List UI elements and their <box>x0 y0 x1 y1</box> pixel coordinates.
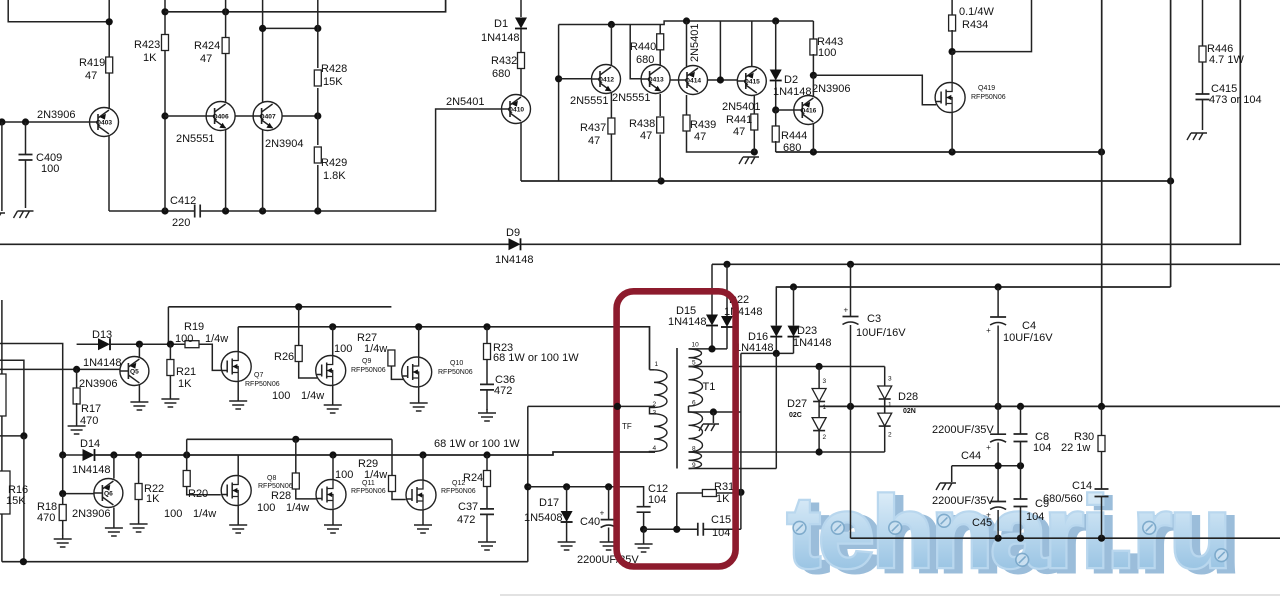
svg-text:RFP50N06: RFP50N06 <box>441 488 476 495</box>
capacitor C412 <box>109 210 195 212</box>
svg-text:47: 47 <box>694 131 706 143</box>
wire Q5 collector <box>138 344 140 357</box>
ground R18 <box>54 535 72 547</box>
diode D22 <box>726 264 728 316</box>
junction rail y406 nodes <box>995 403 1002 410</box>
junction D14 bus <box>483 451 490 458</box>
svg-text:R437: R437 <box>580 122 606 134</box>
svg-text:3: 3 <box>888 376 892 383</box>
T1 secondary winding mid <box>689 367 703 407</box>
svg-text:220: 220 <box>172 217 190 229</box>
svg-text:R24: R24 <box>463 472 483 484</box>
junction rail B <box>329 323 336 330</box>
wire gate rail A <box>168 306 391 308</box>
wire Q8 source <box>237 506 239 522</box>
svg-text:R17: R17 <box>81 403 101 415</box>
capacitor C3 <box>850 264 852 316</box>
mosfet Q8 <box>221 476 251 506</box>
svg-text:RFP50N06: RFP50N06 <box>245 381 280 388</box>
ground Q5 <box>130 398 148 410</box>
wire Q11 drain <box>332 455 334 480</box>
wire rail y287 <box>776 286 1171 288</box>
transistor Q410 <box>502 95 531 124</box>
wire left rail lower <box>23 436 25 562</box>
capacitor C45 <box>997 466 999 502</box>
wire emitter bus y152 <box>776 151 1102 153</box>
wire pin10 wire <box>689 348 728 350</box>
junction rail A <box>295 303 302 310</box>
svg-text:3: 3 <box>653 410 657 417</box>
wire output rail y406 <box>819 405 1280 407</box>
svg-text:10UF/16V: 10UF/16V <box>856 327 906 339</box>
svg-text:1/4w: 1/4w <box>286 502 309 514</box>
junction bus y152 <box>810 148 817 155</box>
svg-text:C44: C44 <box>961 450 981 462</box>
junction C412 bus <box>161 207 168 214</box>
wire Q412 collector rail <box>559 21 814 25</box>
junction C412 bus <box>222 207 229 214</box>
wire Q407 collector riser <box>262 0 264 103</box>
watermark tehnari.ru <box>787 477 1237 593</box>
diode D2 <box>775 21 777 70</box>
wire Q406 base <box>165 115 206 117</box>
junction rail y21 <box>772 17 779 24</box>
capacitor C37 <box>480 509 494 515</box>
svg-text:100: 100 <box>818 47 836 59</box>
faint bottom divider <box>500 594 1280 596</box>
svg-text:680/560: 680/560 <box>1043 493 1083 505</box>
ground R22 <box>130 520 148 532</box>
junction R419 top <box>106 18 113 25</box>
svg-text:10: 10 <box>692 342 700 349</box>
junction rail y406 nodes <box>1017 403 1024 410</box>
svg-text:1.8K: 1.8K <box>323 170 346 182</box>
svg-text:Q419: Q419 <box>978 85 995 92</box>
wire Q415 collector <box>751 21 753 67</box>
transistor Q412 <box>592 65 621 94</box>
wire Q412 base <box>559 78 592 80</box>
junction C412 bus <box>259 207 266 214</box>
svg-text:D17: D17 <box>539 497 559 509</box>
svg-text:2N5401: 2N5401 <box>689 23 701 62</box>
junction pin10 node <box>708 345 715 352</box>
svg-text:C3: C3 <box>867 313 881 325</box>
junction R434 node <box>949 48 956 55</box>
wire V+ top rail <box>165 0 446 12</box>
resistor R21 <box>169 344 171 360</box>
ground Q6 <box>105 524 123 536</box>
resistor R29 <box>391 439 393 476</box>
svg-text:R441: R441 <box>726 114 752 126</box>
wire pin5 wire <box>689 366 885 368</box>
diode D23 <box>793 287 795 326</box>
wire Q407 right link <box>282 115 318 117</box>
junction Q412 base node <box>555 75 562 82</box>
diode D15 <box>711 264 713 314</box>
svg-text:47: 47 <box>85 70 97 82</box>
svg-text:0.1/4W: 0.1/4W <box>959 6 994 18</box>
wire Q6 collector <box>113 455 115 479</box>
wire top-left stub <box>8 0 109 22</box>
resistor R441 <box>753 95 755 114</box>
svg-text:473 or 104: 473 or 104 <box>1209 94 1262 106</box>
svg-text:R20: R20 <box>188 488 208 500</box>
wire Q12 source <box>422 510 424 521</box>
svg-text:R440: R440 <box>630 41 656 53</box>
wire Q10 drain <box>418 327 420 357</box>
mosfet Q7 <box>221 352 251 382</box>
svg-text:D14: D14 <box>80 438 100 450</box>
svg-text:Q406: Q406 <box>213 114 229 121</box>
wire D17 bus <box>528 487 644 507</box>
resistor R443 <box>812 21 814 40</box>
junction D14 bus <box>135 451 142 458</box>
resistor R28 <box>295 439 297 473</box>
svg-text:1N4148: 1N4148 <box>735 342 774 354</box>
wire pin6 wire <box>689 406 741 412</box>
svg-text:2N3906: 2N3906 <box>79 378 118 390</box>
junction rail C <box>292 436 299 443</box>
resistor R27 <box>388 350 395 366</box>
svg-text:Q10: Q10 <box>450 360 463 367</box>
svg-text:1: 1 <box>655 361 659 368</box>
svg-text:472: 472 <box>457 514 475 526</box>
junction bus y152 <box>949 148 956 155</box>
svg-text:2: 2 <box>653 401 657 408</box>
resistor R439 <box>686 95 688 116</box>
junction D17 bus <box>605 483 612 490</box>
svg-text:2N3906: 2N3906 <box>37 109 76 121</box>
junction Q416 base node <box>772 106 779 113</box>
T1 primary pin4 lead <box>650 451 656 454</box>
svg-text:Q6: Q6 <box>104 491 113 498</box>
svg-text:5: 5 <box>692 360 696 367</box>
junction pin5 wire <box>816 363 823 370</box>
resistor R438 <box>659 94 661 116</box>
wire Q412 rail riser <box>558 25 560 182</box>
wire output gnd bus <box>851 537 1280 539</box>
svg-text:+: + <box>986 443 991 452</box>
junction R423 node <box>161 112 168 119</box>
junction rail y406 nodes <box>847 403 854 410</box>
junction Q403 base node <box>22 118 29 125</box>
svg-text:C40: C40 <box>580 516 600 528</box>
svg-text:15K: 15K <box>323 76 343 88</box>
ground C409 <box>14 211 34 218</box>
resistor R17 <box>76 369 78 389</box>
svg-text:100: 100 <box>334 343 352 355</box>
resistor R15 left edge <box>0 374 6 416</box>
svg-text:Q403: Q403 <box>96 120 112 127</box>
svg-text:Q412: Q412 <box>598 77 614 84</box>
svg-text:100: 100 <box>257 502 275 514</box>
T1 primary lower winding <box>654 414 667 452</box>
wire Q9 drain <box>332 327 334 356</box>
svg-text:6: 6 <box>692 400 696 407</box>
wire pin6 ground stub <box>712 412 714 423</box>
junction D17 bus <box>563 483 570 490</box>
wire left edge rail <box>1 300 3 562</box>
junction rail y406 nodes <box>1098 403 1105 410</box>
svg-text:680: 680 <box>492 68 510 80</box>
diode D27b <box>818 402 820 418</box>
wire rail C left drop <box>186 439 188 455</box>
T1 secondary winding upper <box>689 349 702 367</box>
svg-text:4: 4 <box>653 445 657 452</box>
svg-text:Q11: Q11 <box>362 480 375 487</box>
resistor R30 <box>1101 406 1103 436</box>
diode D14 <box>63 454 83 456</box>
wire left tap y436 <box>0 435 24 437</box>
svg-text:47: 47 <box>640 130 652 142</box>
junction gnd bus <box>1098 535 1105 542</box>
svg-text:2N5551: 2N5551 <box>570 95 609 107</box>
wire Q406 emitter <box>225 130 227 211</box>
svg-text:R424: R424 <box>194 40 220 52</box>
svg-text:D2: D2 <box>784 74 798 86</box>
wire Q7 drain <box>237 327 239 352</box>
highlight box around transformer <box>617 291 736 566</box>
wire Q9 source <box>332 386 334 402</box>
svg-text:C37: C37 <box>458 501 478 513</box>
transistor Q407 <box>253 102 282 131</box>
svg-text:1/4w: 1/4w <box>301 390 324 402</box>
wire tie ground stub <box>951 466 953 482</box>
junction gnd bus <box>1017 535 1024 542</box>
ground D17 <box>558 538 576 550</box>
svg-text:RFP50N06: RFP50N06 <box>971 94 1006 101</box>
svg-text:R28: R28 <box>271 490 291 502</box>
junction R31-C15 node <box>737 489 744 496</box>
svg-text:Q415: Q415 <box>744 79 760 86</box>
transistor Q415 <box>737 67 766 96</box>
ground R17 <box>68 422 86 434</box>
svg-text:R434: R434 <box>962 19 988 31</box>
wire Q5 emitter <box>138 385 140 398</box>
junction Q403 base node <box>0 118 5 125</box>
svg-text:tehnari.ru: tehnari.ru <box>787 477 1229 589</box>
capacitor C14 <box>1095 489 1109 497</box>
junction D14 bus <box>183 451 190 458</box>
svg-text:02N: 02N <box>903 408 916 415</box>
svg-text:1/4w: 1/4w <box>193 508 216 520</box>
wire long rail x1170 <box>1170 0 1172 287</box>
ground Q10 <box>410 399 428 411</box>
junction base link <box>717 76 724 83</box>
resistor R432 <box>518 53 525 69</box>
resistor R434 <box>951 0 953 16</box>
capacitor C9 <box>1020 466 1022 499</box>
wire Q407 emitter <box>262 130 264 211</box>
wire long rail x1101 <box>1101 0 1103 406</box>
svg-text:47: 47 <box>588 135 600 147</box>
wire R31 node rail x741 <box>740 353 742 529</box>
svg-text:1N4148: 1N4148 <box>72 464 111 476</box>
svg-text:R31: R31 <box>714 481 734 493</box>
junction tie <box>1017 462 1024 469</box>
svg-text:1K: 1K <box>143 52 157 64</box>
svg-text:+: + <box>844 306 849 315</box>
resistor R446 <box>1202 0 1204 47</box>
ground C415 <box>1187 133 1207 140</box>
diode D1 <box>520 0 522 17</box>
svg-text:C14: C14 <box>1072 480 1092 492</box>
junction D13 wire <box>167 341 174 348</box>
svg-text:Q410: Q410 <box>508 107 524 114</box>
svg-text:15K: 15K <box>6 495 26 507</box>
ground left edge <box>0 213 5 220</box>
svg-text:R19: R19 <box>184 321 204 333</box>
junction rail y28 <box>314 25 321 32</box>
junction rail B <box>415 323 422 330</box>
svg-text:2N3906: 2N3906 <box>812 83 851 95</box>
svg-text:2N5551: 2N5551 <box>612 92 651 104</box>
wire pins2-3 feed <box>528 405 655 407</box>
capacitor C15 <box>644 528 698 530</box>
svg-text:1N4148: 1N4148 <box>668 316 707 328</box>
resistor R444 <box>775 110 777 127</box>
wire left tap y360 <box>0 360 24 436</box>
junction rail y21 <box>683 17 690 24</box>
svg-text:680: 680 <box>636 54 654 66</box>
svg-text:4.7 1W: 4.7 1W <box>1209 54 1244 66</box>
wire Q419 drain <box>951 52 953 83</box>
resistor R424 <box>222 38 229 54</box>
junction D14 bus <box>59 451 66 458</box>
transistor Q416 <box>794 96 823 125</box>
T1 primary pin1 lead <box>650 369 655 371</box>
resistor R19 <box>185 341 199 348</box>
diode D28b <box>884 399 886 413</box>
junction pins2-3 on box edge <box>614 403 621 410</box>
svg-text:Q5: Q5 <box>130 369 139 376</box>
junction R31-C15 node <box>673 526 680 533</box>
resistor R440 <box>659 25 661 34</box>
ground Q8 <box>229 521 247 533</box>
svg-text:47: 47 <box>733 126 745 138</box>
wire Q414-Q415 base link <box>708 79 738 81</box>
svg-text:Q7: Q7 <box>254 372 263 379</box>
svg-text:T1: T1 <box>703 381 716 393</box>
wire Q8 drain <box>237 455 239 476</box>
wire Q7 source <box>237 382 239 398</box>
junction D14 bus <box>110 451 117 458</box>
svg-text:C4: C4 <box>1022 320 1036 332</box>
svg-text:1N5408: 1N5408 <box>524 512 563 524</box>
mosfet Q9 <box>316 356 346 386</box>
wire pin9 riser <box>775 353 777 468</box>
wire Q6 base drop <box>62 455 64 494</box>
svg-text:D23: D23 <box>797 325 817 337</box>
svg-text:100: 100 <box>41 163 59 175</box>
svg-text:R419: R419 <box>79 57 105 69</box>
junction rail y287 <box>995 283 1002 290</box>
svg-text:1/4w: 1/4w <box>364 343 387 355</box>
resistor R31 <box>677 492 703 494</box>
svg-text:1N4148: 1N4148 <box>724 306 763 318</box>
junction pin8 wire <box>816 448 823 455</box>
ground Q11 <box>324 521 342 533</box>
wire pin8 wire <box>689 451 885 453</box>
svg-text:D1: D1 <box>494 18 508 30</box>
mosfet Q11 <box>316 480 346 510</box>
svg-text:1K: 1K <box>178 378 192 390</box>
diode D17 <box>566 487 568 511</box>
resistor R437 <box>610 93 612 118</box>
resistor R22 <box>138 455 140 484</box>
svg-text:1K: 1K <box>146 493 160 505</box>
T1 secondary winding lower <box>689 412 703 452</box>
svg-text:R423: R423 <box>134 39 160 51</box>
wire C44-C8 tie <box>952 465 1021 467</box>
junction left node <box>20 432 27 439</box>
wire base riser <box>719 21 721 80</box>
svg-text:RFP50N06: RFP50N06 <box>351 488 386 495</box>
svg-text:2N5551: 2N5551 <box>176 133 215 145</box>
svg-text:+: + <box>600 509 605 518</box>
capacitor C8 <box>1020 406 1022 434</box>
svg-text:R428: R428 <box>321 63 347 75</box>
svg-text:104: 104 <box>1026 511 1044 523</box>
wire D16-D23 join <box>741 352 794 354</box>
wire Q403 emitter <box>108 136 110 211</box>
svg-text:3: 3 <box>823 378 827 385</box>
junction C412 bus <box>314 207 321 214</box>
wire Q10 source <box>418 387 420 399</box>
wire C12 ground stub <box>643 529 645 540</box>
svg-text:1: 1 <box>888 402 892 409</box>
wire Q403 base <box>0 121 90 123</box>
svg-text:2N5401: 2N5401 <box>446 96 485 108</box>
svg-text:R438: R438 <box>629 118 655 130</box>
svg-text:+: + <box>986 326 991 335</box>
mosfet Q419 <box>935 83 965 113</box>
wire Q414 collector <box>686 21 688 67</box>
wire Q416 collector <box>812 75 814 96</box>
svg-text:Q416: Q416 <box>800 108 816 115</box>
diode D13 <box>77 343 98 345</box>
wire pin9 wire <box>689 468 777 470</box>
junction bottom loop <box>20 558 27 565</box>
svg-text:2200UF/35V: 2200UF/35V <box>932 424 994 436</box>
svg-text:R429: R429 <box>321 157 347 169</box>
junction rail <box>222 8 229 15</box>
wire bottom loop <box>2 561 528 563</box>
svg-text:1N4148: 1N4148 <box>495 254 534 266</box>
wire left tap y343 <box>0 344 63 457</box>
wire Q11 source <box>332 510 334 522</box>
svg-text:472: 472 <box>494 385 512 397</box>
capacitor C4 <box>997 287 999 317</box>
transistor Q5 <box>120 357 149 386</box>
svg-text:R439: R439 <box>690 119 716 131</box>
svg-text:R432: R432 <box>491 55 517 67</box>
diode D27a <box>818 367 820 389</box>
svg-text:2: 2 <box>823 434 827 441</box>
ground C40 <box>600 538 618 550</box>
svg-text:68 1W or 100 1W: 68 1W or 100 1W <box>434 438 520 450</box>
svg-text:Q414: Q414 <box>685 78 701 85</box>
svg-text:D9: D9 <box>506 227 520 239</box>
wire Q419 source <box>951 113 953 153</box>
resistor R419 <box>108 0 110 57</box>
junction rail y287 <box>790 283 797 290</box>
wire node rail y264 <box>712 263 1280 265</box>
ground tie <box>936 483 956 490</box>
svg-text:2200UF/35V: 2200UF/35V <box>932 495 994 507</box>
wire emitter bus y181 <box>521 180 1171 182</box>
ground C37 <box>478 538 496 550</box>
